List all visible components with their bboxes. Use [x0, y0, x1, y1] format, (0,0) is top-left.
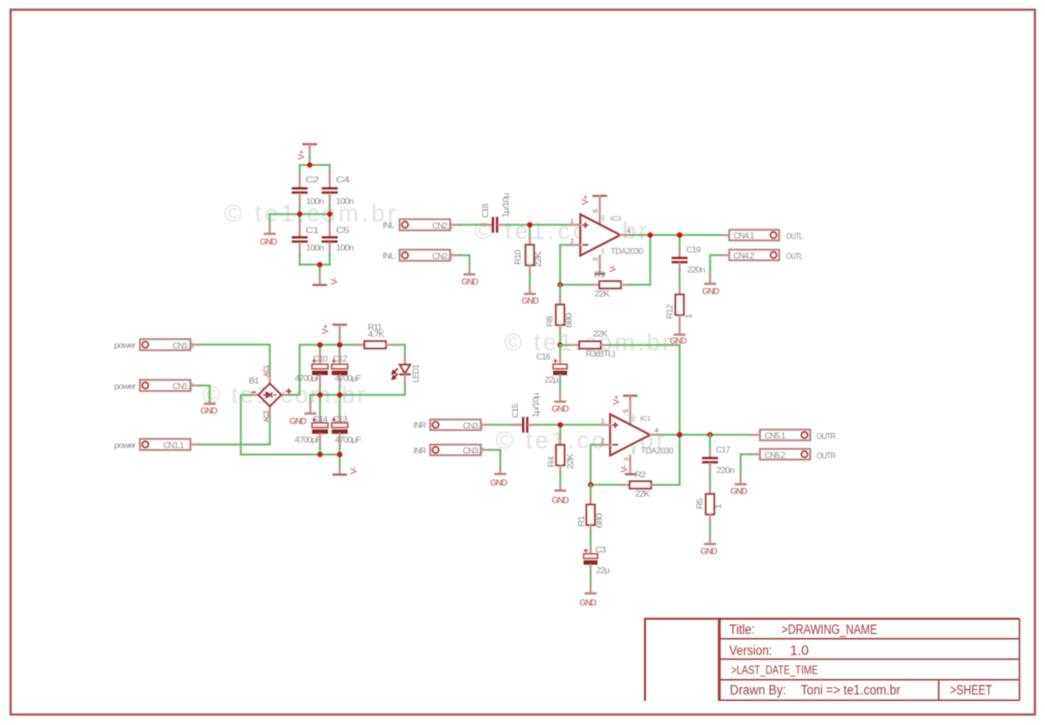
ground (R5) — [704, 543, 716, 545]
ground (R10) — [524, 293, 536, 295]
pin C17 top — [709, 449, 711, 457]
wire BTL node to R3 — [560, 344, 570, 346]
wire R5 to ground — [709, 523, 711, 536]
supply symbol V+ (IC1) — [623, 395, 638, 397]
wire IC1 pin2 to feedback node — [591, 445, 601, 485]
pin R5 bottom — [709, 515, 711, 524]
pin CN4.1 — [721, 234, 729, 236]
junction V+ rail C10 — [317, 342, 322, 347]
svg-text:>DRAWING_NAME: >DRAWING_NAME — [782, 622, 878, 637]
pin V- power — [339, 466, 341, 474]
capacitor C5 — [322, 236, 338, 243]
pin R10 bottom — [529, 265, 531, 273]
svg-text:GND: GND — [552, 495, 569, 505]
wire top rail cap bank — [300, 164, 330, 166]
pin C15 left — [512, 424, 522, 426]
pin IC3 output 4 — [620, 234, 630, 236]
svg-text:IC3: IC3 — [610, 216, 621, 223]
wire C18 to opamp IC3 pin1 — [507, 224, 570, 226]
pin C13 top — [339, 416, 341, 423]
svg-text:4700µF: 4700µF — [295, 434, 321, 444]
bridge minus marker — [252, 391, 256, 393]
pin gnd power — [309, 403, 311, 412]
junction BTL node — [557, 342, 562, 347]
pin CN1.2 gnd — [209, 401, 211, 404]
connector CN1.2 — [140, 380, 191, 391]
junction IC1 output — [677, 432, 682, 437]
pin R11 right — [386, 344, 394, 346]
ground (CN5.2) — [735, 483, 747, 485]
svg-text:CN1.1: CN1.1 — [163, 440, 184, 450]
wire gnd stem power — [309, 395, 311, 403]
pin CN2.1 — [451, 224, 459, 226]
pin IC3 power V- pin3 — [599, 256, 601, 274]
pin bridge minus — [251, 394, 258, 396]
capacitor C12 electrolytic — [332, 359, 348, 375]
pin C3 gnd — [590, 587, 592, 593]
pin C3 bottom — [590, 565, 592, 573]
svg-text:GND: GND — [290, 416, 307, 426]
wire CN3.2 to ground — [490, 450, 501, 469]
svg-text:VS-: VS- — [631, 447, 636, 454]
svg-text:C12: C12 — [333, 354, 348, 364]
svg-text:5: 5 — [623, 409, 630, 413]
svg-text:V-: V- — [348, 467, 358, 475]
wire bottom rail cap bank — [300, 264, 330, 266]
wire C19 branch — [679, 235, 681, 249]
capacitor C2 — [292, 187, 308, 194]
pin R9 left — [590, 284, 599, 286]
svg-text:CN5.2: CN5.2 — [765, 450, 786, 460]
wire BTL node to C16 — [559, 345, 561, 357]
supply symbol V- (IC3) — [594, 273, 605, 275]
pin R2 left — [621, 484, 630, 486]
wire feedback node to R8 — [559, 285, 561, 298]
plus marker IC1 — [612, 422, 618, 428]
bridge diode glyph — [263, 392, 276, 398]
resistor R9 — [599, 281, 621, 288]
svg-text:22K: 22K — [533, 251, 543, 267]
pin C18 right — [498, 224, 507, 226]
pin V- cap bank — [319, 273, 321, 284]
svg-text:C3: C3 — [595, 544, 606, 554]
pin bridge plus — [281, 394, 290, 396]
svg-text:Toni => te1.com.br: Toni => te1.com.br — [801, 683, 901, 698]
wire C12 to mid rail — [339, 387, 341, 395]
svg-text:C18: C18 — [480, 203, 490, 218]
svg-text:LED1: LED1 — [410, 364, 420, 383]
svg-text:4.7K: 4.7K — [368, 329, 385, 339]
plus marker IC3 — [583, 222, 589, 228]
pin IC3 input 2 — [570, 244, 581, 246]
junction IC3 feedback node — [557, 282, 562, 287]
pin CN2.2 — [451, 254, 459, 256]
minus marker IC3 — [583, 244, 589, 246]
capacitor C4 — [322, 187, 338, 194]
junction IC1 feedback node — [588, 482, 593, 487]
resistor R1 — [586, 505, 595, 526]
ground (C16) — [554, 401, 566, 403]
pin R9 right — [621, 284, 630, 286]
svg-text:TDA2030: TDA2030 — [641, 447, 674, 456]
wire C2 to mid rail — [299, 206, 301, 215]
junction mid rail right — [327, 211, 332, 216]
supply symbol V+ (power) — [332, 324, 347, 326]
connector CN1.1 — [140, 439, 191, 450]
resistor R10 — [526, 245, 535, 266]
svg-text:V-: V- — [619, 465, 629, 473]
pin CN1.2 — [190, 384, 199, 386]
svg-text:INR: INR — [413, 420, 426, 430]
op-amp IC1 TDA2030 — [610, 414, 650, 455]
capacitor C1 — [292, 236, 308, 243]
svg-text:22K: 22K — [635, 488, 650, 498]
capacitor C13 electrolytic — [332, 418, 348, 434]
pin C2 top — [299, 173, 301, 187]
svg-text:power: power — [114, 440, 136, 450]
svg-text:2: 2 — [601, 438, 605, 445]
junction V- rail C13 — [337, 452, 342, 457]
svg-text:GND: GND — [522, 296, 539, 306]
wire C14 branch top — [319, 395, 321, 416]
svg-text:100n: 100n — [306, 243, 324, 253]
capacitor C14 electrolytic — [312, 418, 328, 434]
pin R3 left — [570, 344, 579, 346]
svg-text:R5: R5 — [695, 498, 705, 509]
svg-text:GND: GND — [490, 477, 507, 487]
pin IC3 power V+ — [599, 197, 601, 225]
pin C16 top — [559, 357, 561, 365]
pin CN3.1 — [481, 424, 490, 426]
pin R11 left — [356, 344, 365, 346]
wire R8 to BTL node — [559, 333, 561, 346]
pin C4 top — [329, 173, 331, 187]
pin C5 top — [329, 222, 331, 236]
wire C13 to bottom rail — [339, 446, 341, 455]
junction V- rail C14 — [317, 452, 322, 457]
supply symbol V- (cap bank) — [313, 284, 328, 286]
wire C12 branch top — [339, 345, 341, 353]
ground (R12) — [674, 334, 686, 336]
svg-text:R4: R4 — [546, 456, 556, 467]
junction C19 branch — [677, 232, 682, 237]
junction mid rail left — [297, 211, 302, 216]
wire IC3 pin2 to feedback node — [560, 245, 570, 285]
capacitor C10 electrolytic — [312, 359, 328, 375]
op-amp IC3 TDA2030 — [580, 214, 620, 255]
pin R10 gnd — [529, 286, 531, 293]
svg-text:Drawn By:: Drawn By: — [730, 683, 786, 698]
svg-text:1: 1 — [601, 418, 605, 425]
wire feedback node to R1 — [590, 485, 592, 498]
svg-text:CN4.2: CN4.2 — [733, 251, 754, 261]
svg-text:V-: V- — [329, 277, 339, 285]
svg-text:1µ/10µ: 1µ/10µ — [531, 393, 541, 418]
svg-text:100n: 100n — [336, 243, 354, 253]
resistor R8 — [556, 305, 565, 326]
wire C5 branch upper — [329, 214, 331, 222]
wire V- stem cap bank — [319, 265, 321, 273]
wire mid rail cap bank to GND branch — [270, 213, 330, 215]
svg-text:Version:: Version: — [729, 643, 772, 658]
pin R4 bottom — [559, 465, 561, 473]
wire C14 to bottom rail — [319, 446, 321, 455]
pin C1 bottom — [299, 243, 301, 255]
pin C2 bottom — [299, 194, 301, 206]
wire CN2.2 to ground — [459, 255, 469, 268]
svg-text:GND: GND — [580, 597, 597, 607]
svg-text:R8: R8 — [545, 316, 555, 327]
wire R4 to ground — [559, 474, 561, 487]
wire LED to mid rail — [404, 384, 406, 395]
svg-text:CN4.1: CN4.1 — [733, 231, 754, 241]
wire R2 to output — [659, 435, 679, 485]
pin C3 top — [590, 546, 592, 553]
svg-text:1.0: 1.0 — [790, 643, 809, 658]
wire R9 to output — [630, 235, 650, 285]
capacitor C18 — [492, 217, 498, 233]
wire C2 branch upper — [299, 165, 301, 173]
pin CN5.2 gnd — [740, 476, 742, 483]
svg-text:R12: R12 — [665, 304, 675, 319]
svg-text:R9: R9 — [594, 270, 605, 280]
svg-text:OUTR: OUTR — [817, 431, 836, 441]
wire R1 to C3 — [590, 533, 592, 547]
svg-text:C17: C17 — [716, 444, 731, 454]
wire CN1.3 to bridge AC1 — [199, 345, 269, 375]
wire R10 drop — [529, 225, 531, 238]
pin C10 top — [319, 353, 321, 365]
pin IC1 power V- pin3 — [629, 456, 631, 475]
pin C5 bottom — [329, 243, 331, 255]
svg-text:GND: GND — [670, 335, 687, 345]
svg-text:VS+: VS+ — [601, 214, 606, 222]
resistor R4 — [556, 445, 565, 466]
capacitor C3 electrolytic — [584, 548, 598, 564]
ground (R4) — [554, 489, 566, 491]
svg-text:IC1: IC1 — [640, 416, 651, 423]
pin R1 top — [590, 498, 592, 505]
svg-text:CN5.1: CN5.1 — [765, 431, 786, 441]
junction mid rail C10 — [317, 392, 322, 397]
svg-text:AC1: AC1 — [264, 365, 271, 377]
svg-text:TDA2030: TDA2030 — [611, 247, 644, 256]
wire C1 to bottom rail — [299, 255, 301, 265]
pin CN3.2 — [481, 449, 490, 451]
resistor R11 — [364, 341, 386, 348]
capacitor C17 — [702, 457, 718, 464]
capacitor C15 — [522, 417, 528, 433]
connector CN3.1 — [430, 420, 481, 431]
junction V+ rail C12 — [337, 342, 342, 347]
svg-text:OUTR: OUTR — [817, 450, 836, 460]
wire CN2.1 to C18 — [459, 224, 491, 226]
svg-text:C2: C2 — [305, 174, 319, 184]
svg-text:power: power — [114, 381, 136, 391]
wire C13 branch top — [339, 395, 341, 416]
connector CN5.2 — [760, 449, 810, 460]
wire feedback node to R9 — [560, 284, 590, 286]
svg-text:power: power — [114, 340, 136, 350]
pin LED anode — [404, 356, 406, 365]
wire V+ stem power — [339, 338, 341, 345]
wire C4 branch upper — [329, 165, 331, 173]
ground (power mid rail) — [304, 412, 316, 414]
pin CN1.1 — [190, 443, 199, 445]
svg-text:C15: C15 — [510, 403, 520, 418]
svg-text:680: 680 — [564, 313, 574, 328]
svg-text:3: 3 — [624, 457, 631, 461]
wire C1 branch upper — [299, 214, 301, 222]
pin GND cap bank — [269, 225, 271, 233]
ground (CN3.2) — [494, 473, 506, 475]
wire R11 to LED — [394, 345, 405, 356]
svg-text:5: 5 — [593, 209, 600, 213]
wire V- stem power — [339, 455, 341, 467]
svg-text:22K: 22K — [595, 289, 610, 299]
svg-text:>LAST_DATE_TIME: >LAST_DATE_TIME — [731, 665, 818, 677]
svg-text:C10: C10 — [313, 354, 328, 364]
connector CN4.2 — [729, 250, 779, 261]
pin CN1.3 — [190, 344, 199, 346]
svg-text:100n: 100n — [306, 196, 324, 206]
svg-text:GND: GND — [200, 406, 217, 416]
svg-text:220n: 220n — [716, 465, 735, 475]
pin R12 top — [679, 288, 681, 295]
pin IC1 input 2 — [600, 444, 610, 446]
wire R4 drop — [559, 425, 561, 438]
pin IC1 input 1 — [600, 424, 610, 426]
supply symbol V+ (cap bank) — [302, 143, 317, 145]
junction top rail cap bank — [307, 162, 312, 167]
svg-text:220n: 220n — [687, 264, 706, 274]
wire bridge plus to V+ rail — [291, 345, 356, 395]
svg-text:C4: C4 — [336, 174, 350, 184]
junction CN3.1/R4 node — [558, 422, 563, 427]
svg-text:V+: V+ — [296, 150, 306, 160]
capacitor C19 — [672, 257, 688, 264]
svg-text:V+: V+ — [580, 195, 590, 205]
svg-text:V+: V+ — [611, 395, 621, 405]
connector CN2.2 — [400, 250, 451, 261]
pin C1 top — [299, 222, 301, 236]
pin bridge AC1 — [269, 375, 271, 384]
svg-text:GND: GND — [730, 486, 747, 496]
resistor R5 — [706, 494, 715, 515]
wire V+ stem to rail — [309, 157, 311, 165]
svg-text:>SHEET: >SHEET — [950, 683, 992, 698]
pin bridge AC2 — [269, 406, 271, 415]
wire C17 branch — [709, 435, 711, 449]
ground (cap bank) — [264, 233, 276, 235]
supply symbol V- (power) — [332, 474, 347, 476]
svg-text:AC2: AC2 — [264, 410, 271, 422]
wire C19 to R12 — [679, 271, 681, 288]
junction IC3 output — [648, 232, 653, 237]
ground (CN2.2) — [464, 273, 476, 275]
wire gnd mid rail power — [310, 394, 405, 396]
svg-text:GND: GND — [462, 276, 479, 286]
svg-text:VS-: VS- — [601, 247, 606, 254]
resistor R3(BTL) — [579, 341, 601, 348]
pin C16 gnd — [559, 395, 561, 401]
wire C10 branch top — [319, 345, 321, 353]
wire IC3 output to CN4.1 — [630, 234, 721, 236]
junction mid rail C12 — [337, 392, 342, 397]
pin R12 bottom — [679, 315, 681, 334]
bridge plus marker — [286, 389, 291, 394]
pin R2 right — [651, 484, 659, 486]
svg-text:680: 680 — [594, 513, 604, 528]
wire R10 to ground — [529, 274, 531, 287]
svg-text:GND: GND — [552, 404, 569, 414]
supply symbol V+ (IC3) — [593, 195, 608, 197]
svg-text:100n: 100n — [336, 196, 354, 206]
pin R5 gnd — [709, 536, 711, 543]
svg-text:GND: GND — [702, 286, 719, 296]
wire GND drop cap bank — [269, 214, 271, 225]
wire CN3.1 to C15 — [490, 424, 522, 426]
wire bridge minus to V- rail — [241, 395, 340, 455]
pin C14 bottom — [319, 434, 321, 446]
wire R3 to right channel output — [610, 345, 680, 435]
svg-text:22K: 22K — [593, 329, 608, 339]
pin CN4.2 gnd — [709, 276, 711, 283]
wire C17 to R5 — [709, 471, 711, 487]
wire C5 to bottom rail — [329, 255, 331, 265]
pin CN5.1 — [751, 434, 760, 436]
pin CN3.2 gnd — [499, 469, 501, 473]
wire CN5.2 to ground — [741, 454, 751, 476]
svg-text:INL: INL — [383, 251, 396, 261]
svg-text:VS+: VS+ — [631, 414, 636, 422]
pin R10 top — [529, 238, 531, 245]
resistor R2 — [630, 481, 652, 488]
pin R4 gnd — [559, 486, 561, 489]
svg-text:R10: R10 — [513, 249, 523, 264]
junction C17 branch — [707, 432, 712, 437]
connector CN2.1 — [400, 219, 451, 230]
pin R8 top — [559, 298, 561, 305]
wire feedback node to R2 — [591, 484, 621, 486]
supply symbol V- (IC1) — [625, 473, 636, 475]
svg-text:22K: 22K — [565, 453, 575, 469]
junction CN2.1/R10 node — [527, 222, 532, 227]
pin C18 left — [482, 224, 492, 226]
pin C19 bottom — [679, 263, 681, 270]
wire IC1 output to CN5.1 — [660, 434, 751, 436]
svg-text:2: 2 — [570, 238, 574, 245]
svg-text:V-: V- — [607, 265, 617, 273]
pin C12 top — [339, 353, 341, 365]
pin R1 bottom — [590, 525, 592, 532]
pin C17 bottom — [709, 463, 711, 471]
svg-text:22µ: 22µ — [596, 565, 610, 575]
svg-text:4: 4 — [627, 228, 631, 235]
pin R3 right — [601, 344, 610, 346]
svg-text:4: 4 — [655, 427, 659, 434]
junction CN4.1 branch — [677, 232, 682, 237]
LED LED1 — [392, 365, 410, 380]
ground (CN1.2) — [204, 403, 216, 405]
pin CN2.2 gnd — [468, 269, 470, 274]
minus marker IC1 — [612, 444, 618, 446]
svg-text:R1: R1 — [576, 515, 586, 526]
pin C10 bottom — [319, 375, 321, 387]
svg-text:OUTL: OUTL — [786, 231, 803, 241]
svg-text:1µ/10µ: 1µ/10µ — [500, 193, 510, 218]
pin C14 top — [319, 416, 321, 423]
